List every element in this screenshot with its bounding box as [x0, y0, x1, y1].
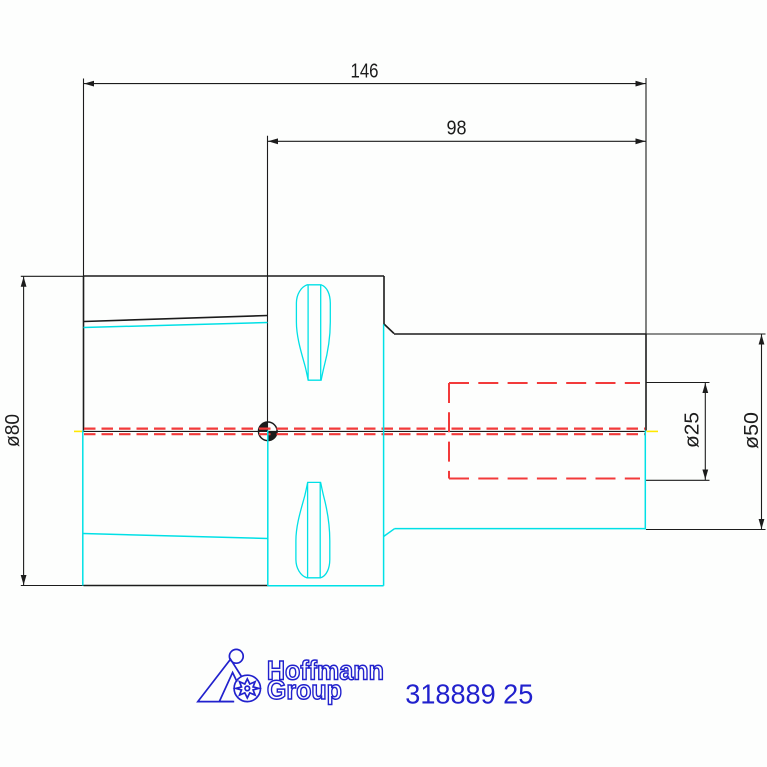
cyan part: step vertical — [383, 324, 385, 585]
svg-text:146: 146 — [351, 61, 379, 83]
centerline yellow tick left — [74, 430, 82, 432]
cyan part: bottom edge right — [268, 585, 384, 587]
svg-text:ø50: ø50 — [741, 412, 763, 449]
cyan part: left face lower — [82, 431, 84, 586]
extension line right x=646 — [645, 78, 647, 334]
dimension dia80 line — [21, 276, 84, 586]
dimension 146 label — [351, 61, 379, 83]
logo apex circle — [229, 649, 243, 663]
part outline black: left face upper — [83, 276, 85, 431]
centerline red dashes upper — [84, 428, 645, 430]
cyan slot upper — [296, 285, 330, 380]
dimension dia80 label — [2, 414, 24, 447]
logo wordmark Group — [267, 675, 342, 705]
logo inner triangle — [219, 673, 237, 702]
dimension dia25 label — [682, 412, 704, 448]
svg-text:98: 98 — [447, 118, 467, 140]
svg-text:318889 25: 318889 25 — [405, 678, 533, 709]
cyan slot lower — [296, 482, 330, 577]
dimension dia50 arrows — [759, 335, 765, 530]
part outline black: step and chamfer — [384, 276, 394, 334]
logo wordmark Hoffmann — [267, 656, 384, 686]
part outline black: right face upper — [645, 334, 647, 431]
part outline black: top edge — [84, 275, 385, 277]
dimension 146 arrows — [84, 81, 646, 87]
part outline black: dia50 top edge — [394, 333, 646, 335]
hidden bore dia25 red dashed rectangle — [449, 383, 640, 479]
extension line left x=83.5 — [83, 79, 85, 277]
dimension 98 line — [268, 140, 647, 142]
dimension dia50 label — [741, 412, 763, 449]
extension / gauge line x=267.5 upper (black) — [267, 136, 269, 431]
dimension 98 arrows — [268, 138, 646, 144]
dimension dia25 arrows — [702, 383, 708, 480]
centerline red dashes lower — [84, 433, 645, 435]
logo big triangle — [198, 659, 242, 701]
dimension 98 label — [447, 118, 467, 140]
part outline black: taper bore top — [84, 316, 268, 322]
part outline black: bottom edge left — [84, 585, 269, 587]
dimension dia25 lines — [646, 383, 710, 481]
cyan part: taper bore bottom — [83, 534, 268, 539]
centroid symbol at gauge point — [259, 422, 278, 441]
cyan part: gauge line lower — [267, 431, 269, 587]
centerline yellow tick right — [647, 430, 659, 432]
cyan part: dia50 bottom edge — [395, 528, 646, 530]
cyan part: chamfer lower — [384, 529, 395, 537]
cyan part: taper bore top — [84, 323, 268, 328]
svg-text:Group: Group — [267, 675, 342, 705]
svg-text:ø80: ø80 — [2, 414, 24, 447]
svg-text:ø25: ø25 — [682, 412, 704, 448]
logo gear — [234, 675, 260, 701]
part number 318889 25 — [405, 678, 533, 709]
centerline black solid — [84, 430, 646, 432]
dimension 146 line — [84, 83, 647, 85]
dimension dia80 arrows — [21, 277, 27, 585]
cyan part: right face lower — [644, 431, 646, 530]
dimension dia50 lines — [646, 334, 766, 530]
